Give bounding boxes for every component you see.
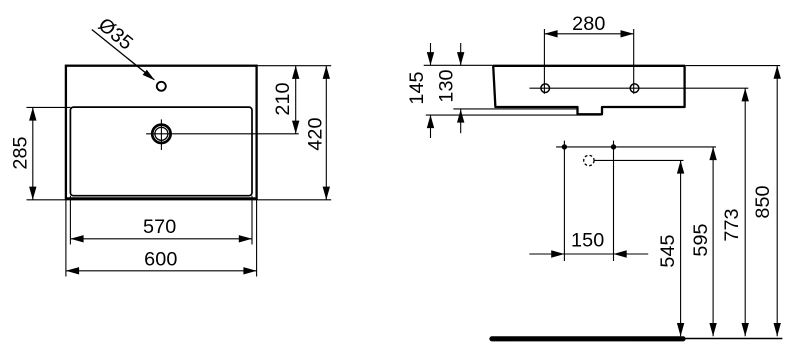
- junction dot right: [611, 144, 616, 149]
- dimension 130 lower stub: [460, 109, 462, 133]
- svg-text:773: 773: [721, 208, 743, 241]
- drain outer circle: [152, 125, 170, 143]
- extension line top right of side view: [686, 65, 780, 67]
- extension line top right of front view: [258, 65, 332, 67]
- extension lines for 570: [69, 196, 71, 245]
- leader line for tap hole: [92, 30, 154, 80]
- floor line thick: [492, 336, 683, 341]
- svg-text:545: 545: [657, 234, 679, 267]
- svg-text:145: 145: [406, 71, 428, 104]
- svg-text:850: 850: [752, 185, 774, 218]
- drain crosshair vertical: [160, 119, 162, 150]
- dimension 145 lower stub: [430, 115, 432, 138]
- dimension 280 line: [544, 33, 633, 35]
- mounting holes centre line: [530, 87, 749, 89]
- dimension 420 line: [325, 66, 327, 200]
- dimension 285 line: [32, 107, 34, 199]
- washbasin inner basin rim (front): [70, 107, 252, 196]
- drain pipe vertical right: [613, 141, 615, 261]
- extension line top of basin rim (left): [27, 106, 71, 108]
- extension lines for 600: [65, 198, 67, 276]
- extension line bottom of basin (long): [27, 199, 332, 201]
- dimension 210 line: [295, 66, 297, 134]
- mounting hole right: [630, 84, 639, 93]
- svg-text:595: 595: [690, 223, 712, 256]
- tap hole: [157, 82, 166, 91]
- dimension 130 upper stub: [460, 43, 462, 65]
- 595 level line: [556, 146, 716, 148]
- dimension 150 line: [529, 253, 648, 255]
- extension line bottom of lip for 145: [426, 114, 601, 116]
- svg-text:600: 600: [144, 249, 177, 271]
- dimension 570 line: [70, 238, 252, 240]
- dimension 773 line: [744, 88, 746, 336]
- dimension 145 upper stub: [430, 43, 432, 65]
- dimension 850 line: [776, 66, 778, 337]
- drain centre line to 210 dimension: [146, 133, 299, 135]
- mounting hole left: [541, 84, 550, 93]
- dimension 595 line: [712, 147, 714, 336]
- washbasin outer body (front): [66, 66, 257, 199]
- svg-text:130: 130: [435, 69, 457, 102]
- extension line top left of side view: [424, 64, 492, 66]
- drain inner circle: [155, 127, 168, 140]
- extension line bottom of body for 130: [453, 108, 577, 110]
- svg-text:570: 570: [143, 216, 176, 238]
- washbasin body outline (side): [493, 66, 684, 115]
- drain pipe vertical left: [563, 141, 565, 261]
- svg-text:420: 420: [304, 117, 326, 150]
- svg-text:285: 285: [10, 136, 32, 169]
- svg-text:150: 150: [571, 229, 604, 251]
- junction dot left: [562, 144, 567, 149]
- dimension 600 line: [66, 270, 257, 272]
- svg-text:280: 280: [572, 13, 605, 35]
- wall outlet dashed circle: [584, 155, 594, 165]
- 545 level line: [594, 159, 683, 161]
- leader arrowhead: [143, 70, 155, 81]
- floor line thin: [683, 338, 782, 340]
- dimension 545 line: [680, 160, 682, 336]
- svg-text:210: 210: [272, 82, 294, 115]
- extension lines for 280: [543, 29, 545, 94]
